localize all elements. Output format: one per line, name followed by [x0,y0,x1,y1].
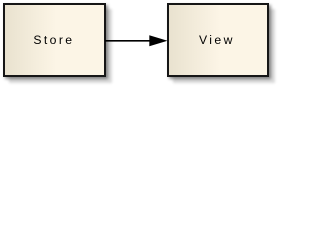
node View [167,3,269,77]
wire arrow Store->View [0,0,274,81]
node Store [3,3,106,77]
